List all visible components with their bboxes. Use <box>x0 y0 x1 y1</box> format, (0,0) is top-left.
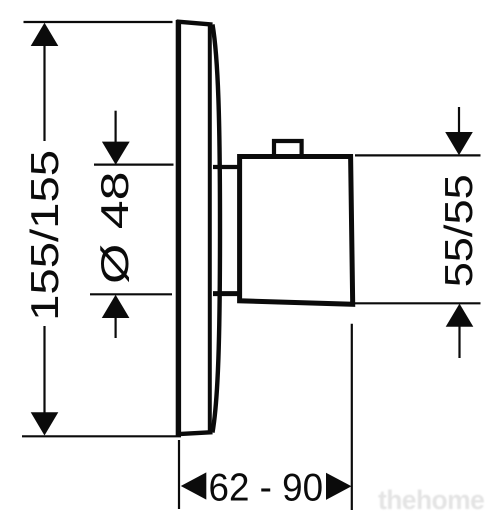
svg-text:Ø 48: Ø 48 <box>94 172 137 284</box>
valve stem top line <box>213 165 240 169</box>
dimension 55/55: lower stem <box>458 326 460 358</box>
wall plate top edge <box>177 22 213 25</box>
handle knob outline <box>240 157 353 305</box>
wall plate front face line <box>208 24 212 433</box>
dimension 55/55: lower reference line <box>355 302 481 304</box>
dimension 55/55: up arrowhead <box>446 304 474 327</box>
wall plate rim silhouette curve <box>213 25 221 433</box>
svg-text:62 - 90: 62 - 90 <box>209 466 324 509</box>
watermark thehome <box>378 485 498 516</box>
valve stem bottom line <box>213 291 240 296</box>
svg-text:55/55: 55/55 <box>438 174 481 287</box>
dimension diameter 48: upper reference line <box>94 164 174 166</box>
dimension diameter 48: lower reference line <box>90 293 172 295</box>
wall plate left edge <box>176 20 181 436</box>
dimension 62-90: right extension line <box>351 324 353 510</box>
dimension 62-90: left extension line <box>178 440 180 509</box>
knob top cap <box>274 141 302 157</box>
svg-text:155/155: 155/155 <box>24 150 67 321</box>
dimension 155/155: up arrowhead <box>31 23 59 46</box>
dimension 155/155: bottom reference line <box>22 435 181 437</box>
dimension diameter 48: up arrowhead <box>102 295 130 318</box>
dimension 62-90: right arrowhead <box>326 473 352 500</box>
dimension 155/155: top reference line <box>24 21 173 23</box>
dimension 155/155: lower stem <box>43 326 45 414</box>
wall plate bottom edge <box>177 432 213 434</box>
dimension 55/55: upper stem <box>458 107 460 133</box>
dimension diameter 48: down arrowhead <box>102 142 130 165</box>
dimension 55/55: down arrowhead <box>445 132 473 155</box>
dimension 155/155: down arrowhead <box>31 412 59 435</box>
dimension 55/55: upper reference line <box>355 154 481 156</box>
dimension diameter 48: lower stem <box>114 317 116 338</box>
dimension 155/155: upper stem <box>43 45 45 141</box>
dimension 62-90: left arrowhead <box>181 472 207 499</box>
dimension diameter 48: upper stem <box>114 111 116 142</box>
